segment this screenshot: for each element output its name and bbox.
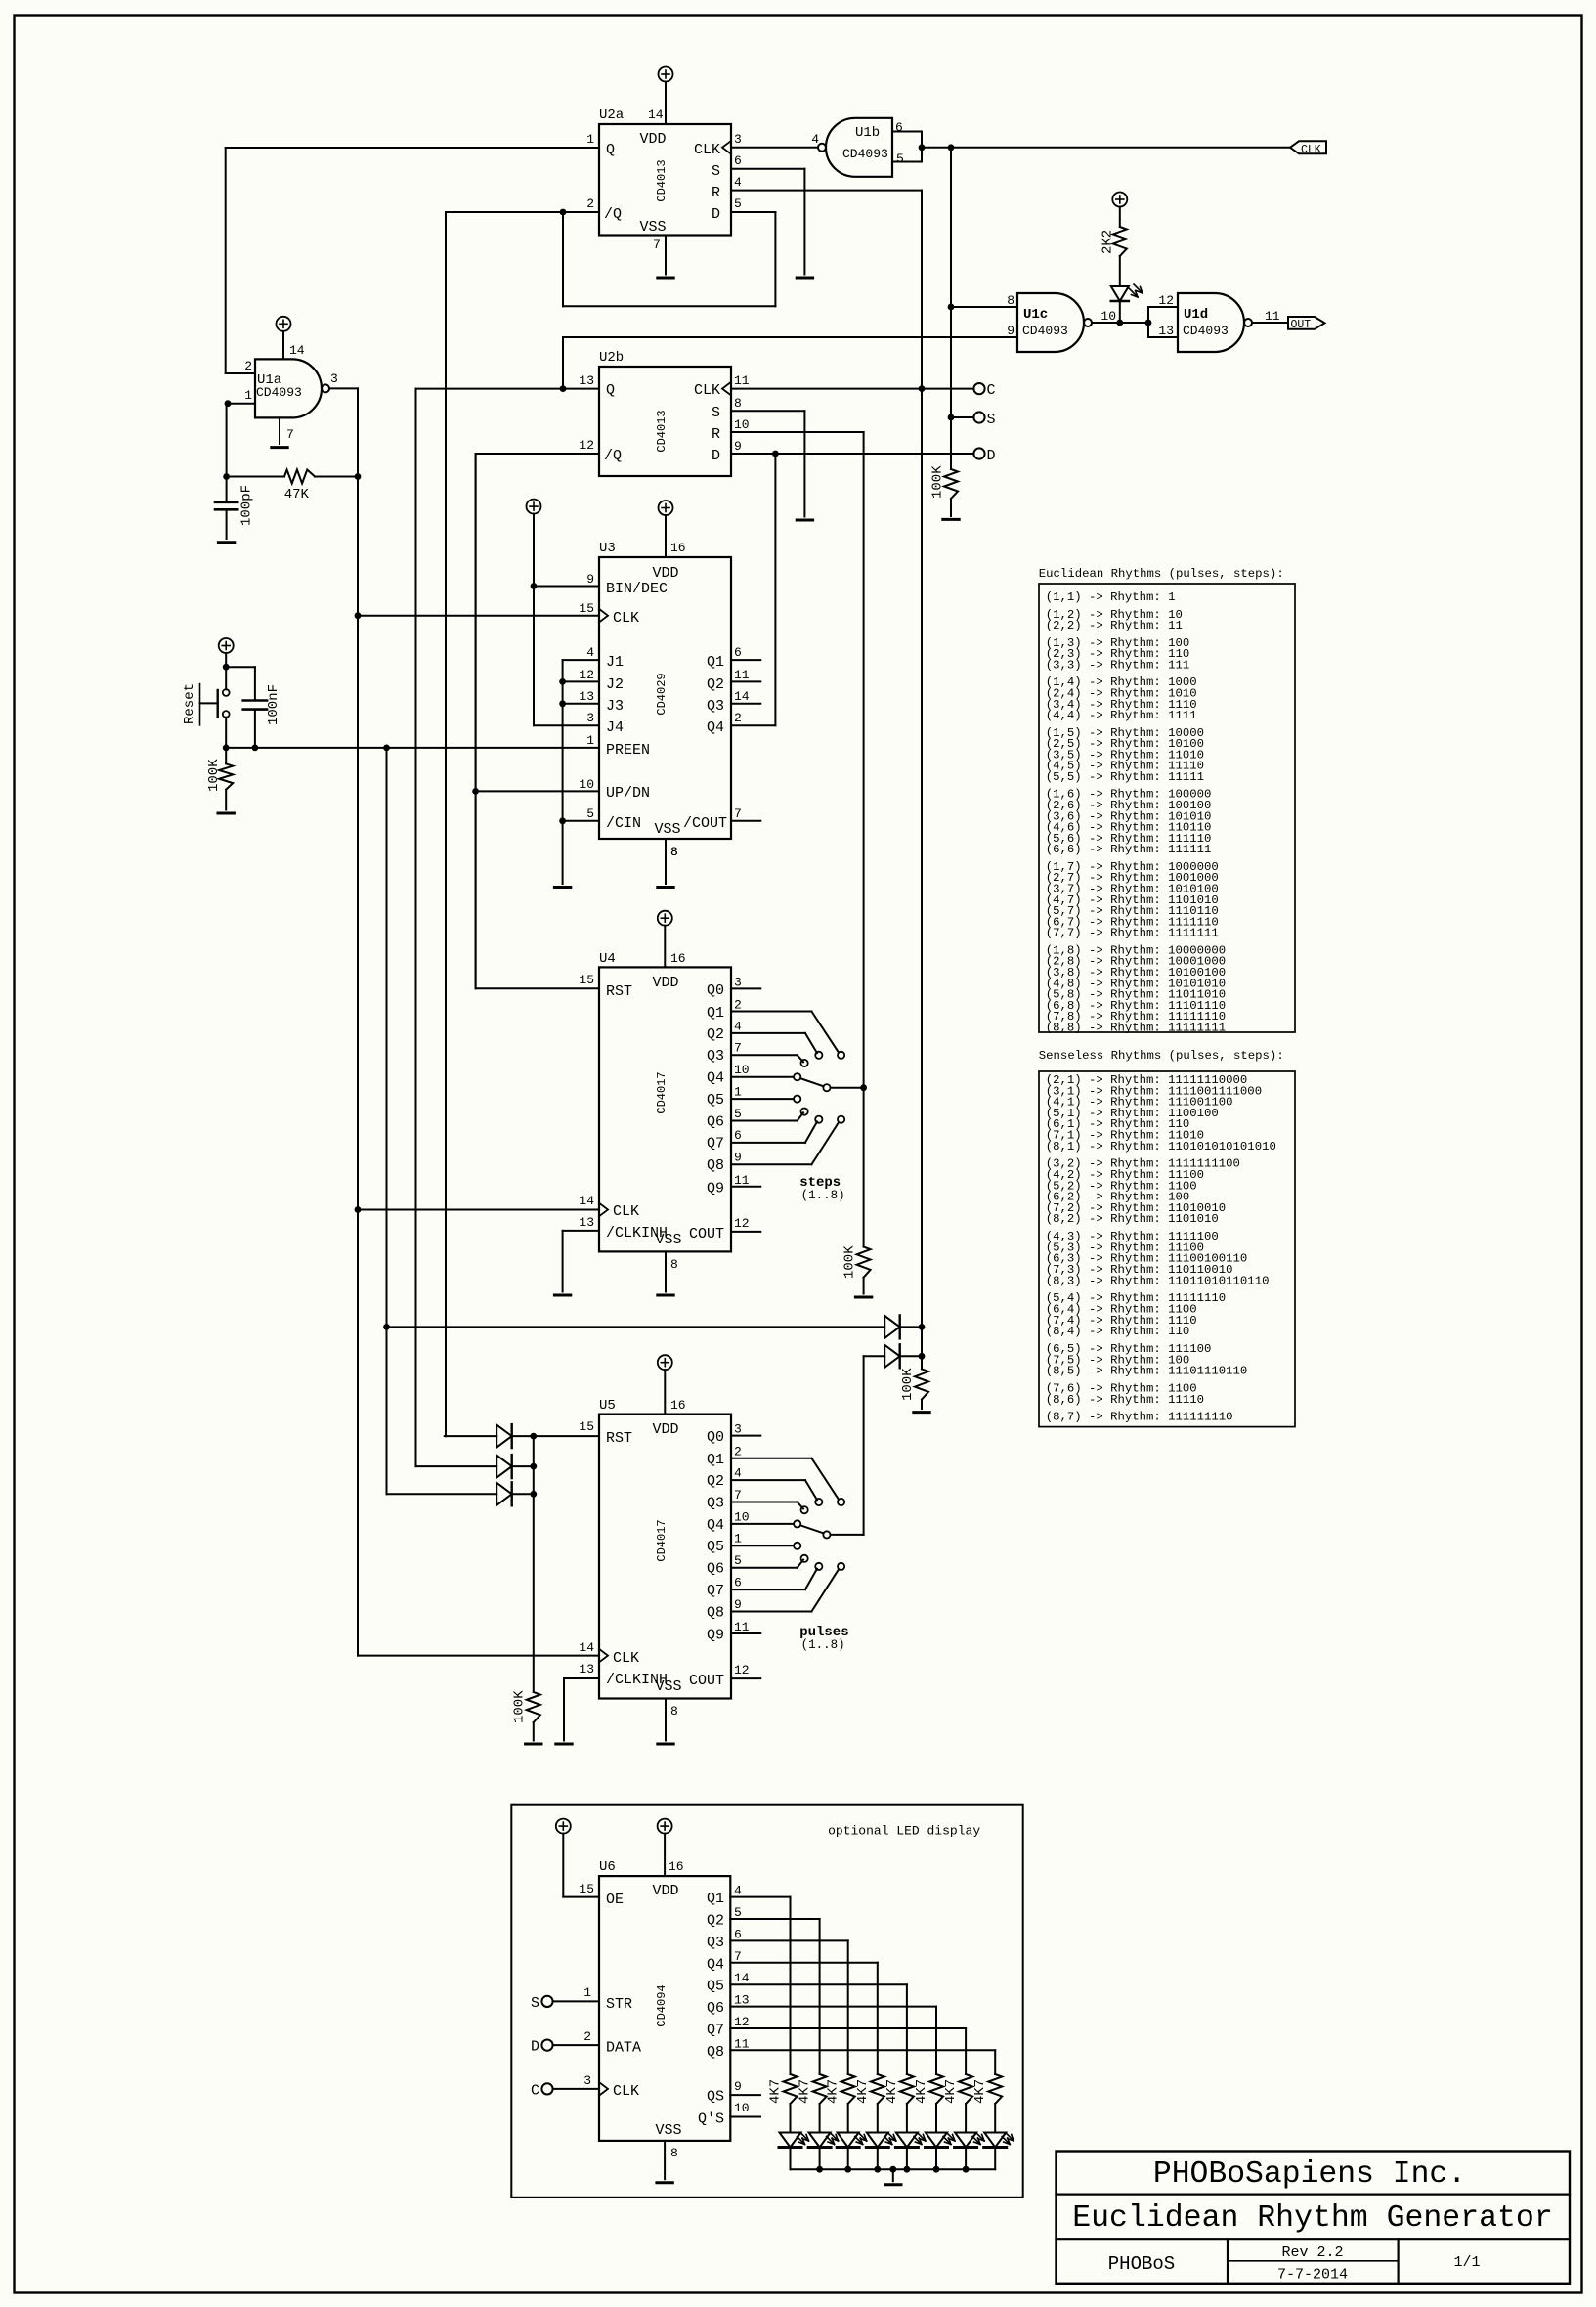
wire U2a pin2 /Q	[446, 211, 599, 213]
resistor 4K7 column 8	[988, 2074, 1002, 2104]
svg-text:D: D	[712, 206, 720, 223]
svg-text:CLK: CLK	[613, 2083, 639, 2100]
pin stub U5 Q9	[731, 1632, 760, 1634]
resistor 2K2	[1112, 193, 1127, 207]
wire U2a pin4 R	[731, 190, 922, 192]
wire U1a output	[329, 387, 358, 389]
svg-text:Q6: Q6	[707, 1113, 724, 1130]
diode D1 reset to pulses common	[387, 1326, 885, 1328]
svg-text:5: 5	[734, 1905, 742, 1920]
svg-text:4K7: 4K7	[855, 2079, 871, 2104]
svg-text:BIN/DEC: BIN/DEC	[606, 581, 668, 597]
svg-text:15: 15	[579, 1419, 594, 1434]
svg-text:Q3: Q3	[707, 1495, 724, 1511]
wire switch Q5 throw	[731, 1098, 794, 1100]
power +V U2a pin14	[659, 67, 673, 82]
svg-text:7: 7	[734, 1949, 742, 1964]
svg-text:100K: 100K	[930, 465, 946, 499]
svg-text:Q7: Q7	[707, 1583, 724, 1599]
svg-text:2: 2	[734, 711, 742, 725]
wire switch Q1 throw	[731, 1458, 811, 1459]
svg-text:14: 14	[579, 1640, 594, 1655]
svg-text:12: 12	[734, 1216, 750, 1231]
wire reset to PREEN	[226, 747, 599, 749]
svg-text:U1c: U1c	[1023, 307, 1048, 323]
wire CLK net to tag	[922, 147, 1290, 149]
svg-text:VDD: VDD	[652, 1421, 678, 1438]
svg-text:4: 4	[734, 1466, 742, 1481]
resistor 4K7 column 3	[841, 2074, 855, 2104]
wire U2b pin11 CLK to C connector	[731, 388, 973, 390]
gate U1c CD4093 NAND	[1017, 293, 1084, 352]
svg-text:11: 11	[1265, 309, 1280, 324]
ground below U5 RST 100K	[526, 1743, 541, 1746]
svg-text:4K7: 4K7	[914, 2079, 929, 2104]
svg-text:VSS: VSS	[655, 1232, 681, 1248]
LED indicator	[1111, 286, 1129, 301]
svg-text:(8,1) -> Rhythm: 1101010101010: (8,1) -> Rhythm: 110101010101010	[1046, 1140, 1276, 1153]
svg-text:2K2: 2K2	[1100, 230, 1116, 254]
svg-text:(2,2) -> Rhythm: 11: (2,2) -> Rhythm: 11	[1046, 619, 1183, 632]
svg-text:1: 1	[734, 1084, 742, 1099]
svg-text:1: 1	[583, 1985, 591, 2000]
wire U6 Q6 to LED column	[730, 2006, 936, 2008]
resistor 4K7 column 6	[929, 2074, 943, 2104]
svg-text:(8,7) -> Rhythm: 111111110: (8,7) -> Rhythm: 111111110	[1046, 1411, 1233, 1424]
svg-text:11: 11	[734, 373, 750, 388]
svg-text:8: 8	[1007, 293, 1014, 308]
resistor 100K U5 RST pulldown	[527, 1692, 540, 1722]
pin stub U3 Q1	[731, 659, 760, 661]
svg-text:100pF: 100pF	[239, 485, 255, 526]
svg-text:CD4093: CD4093	[1183, 324, 1229, 338]
svg-text:PREEN: PREEN	[606, 742, 650, 759]
svg-text:RST: RST	[606, 1430, 632, 1447]
svg-text:(7,7) -> Rhythm: 1111111: (7,7) -> Rhythm: 1111111	[1046, 927, 1219, 940]
svg-text:3: 3	[586, 711, 594, 725]
svg-text:Q5: Q5	[707, 1979, 724, 1995]
svg-text:7-7-2014: 7-7-2014	[1277, 2267, 1348, 2284]
svg-text:Rev 2.2: Rev 2.2	[1281, 2244, 1343, 2261]
svg-text:Q1: Q1	[707, 1005, 724, 1022]
svg-text:100nF: 100nF	[266, 684, 281, 725]
svg-text:3: 3	[734, 132, 742, 147]
wire U2a Q to U1a pin2 vertical	[225, 148, 227, 373]
svg-text:15: 15	[579, 601, 594, 616]
svg-text:Q: Q	[606, 382, 615, 399]
pin stub U5 Q0	[731, 1435, 760, 1437]
svg-text:Q3: Q3	[707, 1048, 724, 1065]
box optional LED display	[511, 1805, 1022, 2198]
svg-text:6: 6	[734, 645, 742, 660]
svg-text:10: 10	[734, 1509, 750, 1524]
svg-text:2: 2	[583, 2029, 591, 2044]
ground U4 pin8 VSS	[665, 1251, 667, 1291]
wire R net vertical	[921, 191, 923, 1370]
svg-text:(6,6) -> Rhythm: 111111: (6,6) -> Rhythm: 111111	[1046, 843, 1212, 856]
wire pin1 down to RC	[226, 404, 228, 502]
title block	[1057, 2152, 1571, 2284]
node S connector	[973, 412, 984, 422]
svg-text:12: 12	[579, 668, 594, 682]
svg-text:(8,2) -> Rhythm: 1101010: (8,2) -> Rhythm: 1101010	[1046, 1212, 1219, 1226]
svg-text:3: 3	[330, 371, 338, 386]
svg-text:(8,4) -> Rhythm: 110: (8,4) -> Rhythm: 110	[1046, 1325, 1190, 1338]
IC U6 CD4094 shift register	[599, 1876, 730, 2141]
svg-text:7: 7	[653, 238, 661, 252]
svg-text:4K7: 4K7	[943, 2079, 959, 2104]
svg-text:4K7: 4K7	[826, 2079, 841, 2104]
wire U1c pin8	[951, 306, 1017, 308]
wire U4 pin14 CLK	[358, 1209, 599, 1211]
svg-text:11: 11	[734, 668, 750, 682]
svg-text:13: 13	[1158, 324, 1174, 338]
svg-text:100K: 100K	[512, 1690, 528, 1723]
svg-text:(5,5) -> Rhythm: 11111: (5,5) -> Rhythm: 11111	[1046, 770, 1204, 784]
svg-text:/CIN: /CIN	[606, 815, 641, 832]
power +V U6 OE	[556, 1819, 571, 1834]
wire U5 pin13 /CLKINH to ground	[564, 1677, 599, 1679]
svg-text:16: 16	[670, 541, 686, 555]
wire LED common cathode	[791, 2168, 996, 2170]
svg-text:5: 5	[896, 152, 904, 166]
svg-text:J1: J1	[606, 654, 624, 671]
svg-text:optional LED display: optional LED display	[828, 1824, 980, 1839]
wire diode common down	[533, 1436, 535, 1692]
resistor 4K7 column 4	[871, 2074, 884, 2104]
svg-text:9: 9	[586, 572, 594, 587]
pin stub U3 /COUT	[731, 820, 760, 822]
svg-text:D: D	[987, 448, 996, 464]
node junction at U1a pin1	[225, 400, 232, 407]
wire U2a pin6 S to ground	[731, 168, 804, 170]
svg-text:13: 13	[579, 373, 594, 388]
svg-text:14: 14	[289, 343, 305, 358]
LED column 1	[780, 2133, 801, 2148]
svg-text:Reset: Reset	[182, 683, 197, 724]
svg-text:Q1: Q1	[707, 1891, 724, 1907]
svg-text:4K7: 4K7	[972, 2079, 988, 2104]
svg-text:COUT: COUT	[689, 1673, 724, 1689]
svg-text:COUT: COUT	[689, 1226, 724, 1242]
svg-text:12: 12	[1158, 293, 1174, 308]
svg-text:9: 9	[734, 2079, 742, 2094]
svg-text:Q9: Q9	[707, 1628, 724, 1644]
node OUT tag	[1288, 317, 1325, 329]
svg-text:6: 6	[734, 1575, 742, 1589]
capacitor 100pF	[215, 501, 237, 503]
wire U2b pin8 S to ground	[731, 410, 804, 412]
svg-text:U6: U6	[599, 1859, 616, 1875]
ground LED common	[889, 2166, 896, 2173]
ground U3 pin8 VSS	[665, 839, 667, 884]
svg-text:D: D	[712, 448, 720, 464]
diode D2 pulses arm	[864, 1355, 885, 1357]
svg-text:13: 13	[579, 689, 594, 704]
wire switch Q7 throw	[731, 1142, 805, 1144]
svg-text:CD4093: CD4093	[256, 385, 302, 400]
svg-text:(8,5) -> Rhythm: 11101110110: (8,5) -> Rhythm: 11101110110	[1046, 1365, 1248, 1378]
wire switch Q2 throw	[731, 1479, 805, 1481]
wire switch Q4 throw	[731, 1523, 794, 1525]
svg-text:U3: U3	[599, 541, 616, 556]
svg-text:6: 6	[895, 120, 903, 135]
svg-text:14: 14	[648, 108, 664, 122]
svg-text:10: 10	[734, 1063, 750, 1077]
svg-text:C: C	[987, 382, 996, 399]
svg-text:Q8: Q8	[707, 1157, 724, 1174]
svg-text:5: 5	[586, 806, 594, 821]
svg-text:CLK: CLK	[694, 142, 720, 158]
wire steps net vertical	[863, 432, 865, 1247]
svg-text:S: S	[712, 163, 720, 180]
svg-text:Q8: Q8	[707, 1604, 724, 1621]
svg-text:12: 12	[734, 2015, 750, 2029]
wire /Q-D loop	[562, 212, 564, 306]
svg-text:Q6: Q6	[707, 1561, 724, 1578]
wire U3 pin3 J4	[534, 724, 599, 726]
svg-text:1: 1	[586, 733, 594, 748]
gate U1a CD4093 NAND oscillator	[255, 359, 322, 417]
pin stub U6 QS prime	[730, 2116, 760, 2118]
svg-text:Q5: Q5	[707, 1539, 724, 1555]
svg-text:J4: J4	[606, 719, 624, 736]
wire D2 anode down to pulses arm	[863, 1356, 865, 1535]
wire U6 Q5 to LED column	[730, 1983, 907, 1985]
svg-text:R: R	[712, 426, 720, 443]
wire S connector branch	[951, 416, 973, 418]
wire U1a inputs	[226, 372, 255, 374]
svg-text:47K: 47K	[284, 487, 310, 502]
ground below 100K	[914, 1411, 929, 1414]
svg-text:1: 1	[586, 132, 594, 147]
wire switch Q4 throw	[731, 1076, 794, 1078]
svg-text:DATA: DATA	[606, 2040, 641, 2057]
svg-text:(1..8): (1..8)	[801, 1189, 845, 1202]
LED column 2	[809, 2133, 831, 2148]
wire U2b pin10 R	[731, 431, 864, 433]
svg-text:CD4094: CD4094	[655, 1984, 669, 2026]
svg-text:CD4029: CD4029	[655, 673, 669, 715]
svg-text:CLK: CLK	[1301, 144, 1321, 156]
ground below 100pF	[218, 541, 234, 544]
svg-text:6: 6	[734, 1128, 742, 1143]
svg-text:8: 8	[670, 1257, 678, 1272]
pin stub U3 Q3	[731, 703, 760, 705]
svg-text:11: 11	[734, 2036, 750, 2051]
wire S net vertical	[950, 148, 952, 469]
svg-text:1: 1	[244, 388, 252, 403]
wire main clock vertical	[357, 388, 359, 1655]
svg-text:7: 7	[734, 806, 742, 821]
node S input connector	[541, 1996, 552, 2007]
svg-text:VSS: VSS	[655, 1678, 681, 1695]
svg-text:9: 9	[734, 1597, 742, 1612]
diode D4 into U5 RST	[416, 1465, 497, 1467]
svg-text:12: 12	[734, 1663, 750, 1677]
svg-text:(4,4) -> Rhythm: 1111: (4,4) -> Rhythm: 1111	[1046, 709, 1197, 722]
svg-text:2: 2	[244, 359, 252, 373]
resistor 100K reset pulldown	[225, 748, 227, 764]
svg-text:Q2: Q2	[707, 1473, 724, 1490]
svg-text:14: 14	[579, 1194, 594, 1208]
svg-text:4: 4	[811, 132, 819, 147]
switch pole arm steps	[800, 1078, 823, 1086]
wire U5 pin14 CLK	[358, 1655, 599, 1657]
svg-text:Senseless Rhythms (pulses, ste: Senseless Rhythms (pulses, steps):	[1039, 1049, 1284, 1063]
wire U2b pin12 /Q	[476, 453, 599, 455]
svg-text:2: 2	[734, 1445, 742, 1459]
pin stub U3 Q2	[731, 680, 760, 682]
ground below steps 100K	[855, 1296, 871, 1299]
svg-text:Q3: Q3	[707, 1935, 724, 1951]
svg-text:Q: Q	[606, 142, 615, 158]
svg-text:CD4093: CD4093	[1022, 324, 1068, 338]
LED column 8	[984, 2133, 1006, 2148]
wire U3 pin15 CLK	[358, 615, 599, 617]
wire U1d output to OUT tag	[1252, 322, 1288, 324]
gate U1d CD4093 NAND	[1178, 293, 1244, 352]
IC U2a CD4013 flip-flop	[599, 124, 731, 236]
svg-text:/Q: /Q	[604, 206, 622, 223]
svg-text:14: 14	[734, 689, 750, 704]
svg-text:D: D	[531, 2039, 539, 2056]
svg-text:PHOBoSapiens Inc.: PHOBoSapiens Inc.	[1153, 2157, 1466, 2192]
svg-text:VDD: VDD	[652, 975, 678, 991]
svg-text:3: 3	[583, 2073, 591, 2088]
svg-text:13: 13	[579, 1215, 594, 1230]
svg-text:Q8: Q8	[707, 2044, 724, 2061]
wire D net to U3 Q4	[774, 454, 776, 725]
power +V U4 pin16	[658, 911, 672, 926]
svg-text:/Q: /Q	[604, 448, 622, 464]
resistor 100K pulldown S net	[944, 469, 958, 499]
svg-text:4: 4	[734, 1019, 742, 1033]
svg-text:1: 1	[734, 1532, 742, 1546]
resistor 47K feedback	[226, 476, 284, 478]
LED column 5	[896, 2133, 918, 2148]
svg-text:RST: RST	[606, 983, 632, 1000]
power +V U5 pin16	[658, 1355, 672, 1370]
svg-text:Q4: Q4	[707, 1517, 724, 1534]
svg-text:QS: QS	[707, 2089, 724, 2106]
svg-text:5: 5	[734, 1553, 742, 1568]
svg-text:U2a: U2a	[599, 108, 624, 123]
svg-text:J3: J3	[606, 698, 624, 715]
svg-text:8: 8	[734, 396, 742, 411]
wire switch Q1 throw	[731, 1011, 811, 1013]
svg-text:Q5: Q5	[707, 1092, 724, 1109]
svg-text:CD4013: CD4013	[655, 410, 669, 452]
ground for U2b S	[797, 519, 812, 522]
svg-text:4: 4	[734, 175, 742, 190]
svg-text:Q6: Q6	[707, 2000, 724, 2017]
svg-text:10: 10	[734, 417, 750, 432]
node CLK tag	[1290, 141, 1326, 153]
svg-text:6: 6	[734, 153, 742, 168]
svg-text:CD4093: CD4093	[842, 147, 888, 161]
svg-text:CLK: CLK	[613, 1203, 639, 1220]
wire switch Q3 throw	[731, 1054, 798, 1056]
svg-text:Q2: Q2	[707, 1913, 724, 1930]
svg-text:15: 15	[579, 973, 594, 987]
svg-text:Q2: Q2	[707, 1026, 724, 1043]
LED column 7	[955, 2133, 976, 2148]
IC U3 CD4029 counter	[599, 557, 731, 839]
svg-text:1/1: 1/1	[1453, 2254, 1480, 2271]
svg-text:CD4013: CD4013	[655, 159, 669, 201]
svg-text:Q0: Q0	[707, 982, 724, 999]
svg-text:(3,3) -> Rhythm: 111: (3,3) -> Rhythm: 111	[1046, 659, 1190, 673]
switch Reset pushbutton	[223, 689, 230, 696]
svg-text:3: 3	[734, 975, 742, 989]
svg-text:5: 5	[734, 196, 742, 211]
svg-text:U4: U4	[599, 951, 616, 967]
svg-text:J2: J2	[606, 676, 624, 693]
svg-text:Q1: Q1	[707, 1452, 724, 1468]
svg-text:Q0: Q0	[707, 1429, 724, 1446]
svg-text:9: 9	[1007, 324, 1014, 338]
svg-text:Euclidean Rhythm Generator: Euclidean Rhythm Generator	[1072, 2201, 1552, 2236]
svg-text:15: 15	[579, 1882, 594, 1896]
LED column 3	[838, 2133, 859, 2148]
wire U3 J1 J2 J3 tie to ground	[563, 659, 599, 661]
node C input connector	[541, 2083, 552, 2094]
wire U3 pin5 /CIN	[563, 820, 599, 822]
box Senseless rhythms list	[1039, 1071, 1295, 1427]
svg-text:9: 9	[734, 439, 742, 454]
power +V reset	[219, 638, 234, 653]
ground U2a pin7 VSS	[665, 236, 667, 275]
wire switch Q6 throw	[731, 1120, 798, 1122]
svg-text:2: 2	[734, 998, 742, 1013]
svg-text:Q4: Q4	[707, 719, 724, 736]
svg-text:9: 9	[734, 1151, 742, 1165]
svg-text:8: 8	[670, 1704, 678, 1719]
svg-text:4K7: 4K7	[798, 2079, 813, 2104]
wire switch Q2 throw	[731, 1032, 805, 1034]
svg-text:VSS: VSS	[655, 2122, 681, 2139]
svg-text:12: 12	[579, 438, 594, 453]
wire switch Q5 throw	[731, 1545, 794, 1546]
svg-text:16: 16	[670, 951, 686, 966]
svg-text:Euclidean Rhythms (pulses, ste: Euclidean Rhythms (pulses, steps):	[1039, 567, 1284, 581]
wire switch Q8 throw	[731, 1611, 811, 1613]
ground for U2a S	[797, 277, 812, 280]
svg-text:C: C	[531, 2082, 539, 2099]
svg-text:CLK: CLK	[613, 1650, 639, 1667]
power +V BIN/DEC J4 net	[527, 500, 541, 514]
node C connector	[973, 383, 984, 394]
wire U6 Q8 to LED column	[730, 2049, 995, 2051]
svg-text:S: S	[712, 405, 720, 421]
pin stub U4 Q0	[731, 987, 760, 989]
svg-text:Q9: Q9	[707, 1180, 724, 1197]
pin stub U4 COUT	[731, 1231, 760, 1233]
ground below 100K	[943, 518, 959, 521]
resistor 4K7 column 7	[959, 2074, 972, 2104]
wire U6 Q1 to LED column	[730, 1896, 790, 1898]
svg-text:3: 3	[734, 1422, 742, 1437]
svg-text:Q7: Q7	[707, 2023, 724, 2039]
svg-text:Q1: Q1	[707, 654, 724, 671]
resistor 100K pulses pulldown	[915, 1369, 928, 1399]
svg-text:6: 6	[734, 1927, 742, 1941]
svg-text:Q3: Q3	[707, 698, 724, 715]
svg-text:OUT: OUT	[1291, 319, 1312, 331]
power +V for U1a pin 14	[277, 317, 291, 331]
wire switch Q7 throw	[731, 1589, 805, 1590]
